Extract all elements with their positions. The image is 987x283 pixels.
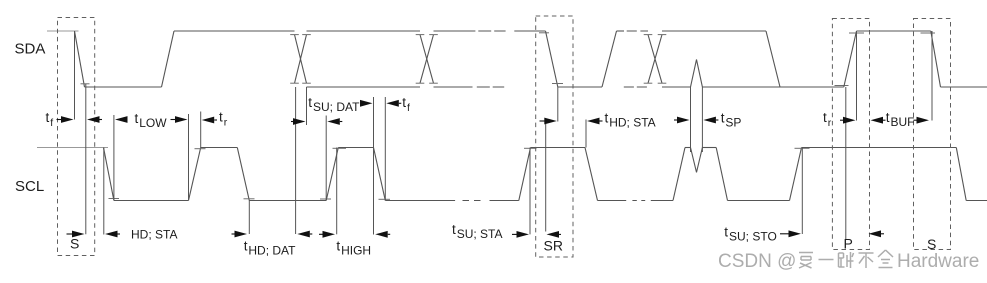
dimension tr1 arrow xyxy=(202,117,217,124)
svg-text:t: t xyxy=(823,110,827,125)
svg-text:t: t xyxy=(886,110,890,125)
svg-text:S: S xyxy=(70,236,79,252)
dimension tSU;DAT right arrow xyxy=(327,118,342,125)
svg-text:SCL: SCL xyxy=(15,178,44,195)
wire SDA rise 2 xyxy=(602,31,617,87)
dimension tBUF left arrow xyxy=(871,117,886,124)
wire SCL high segment 2 xyxy=(338,147,373,149)
label P STOP xyxy=(844,236,853,252)
wire SDA low rail after spike xyxy=(702,86,843,88)
wire SDA low rail dashes 2 xyxy=(624,86,647,88)
wire SDA rise at STOP P xyxy=(844,31,857,87)
wire SCL low 3 solid xyxy=(385,200,455,202)
dimension tSU;DAT left arrow xyxy=(291,118,306,125)
svg-text:P: P xyxy=(844,236,853,252)
label tSU;DAT xyxy=(308,95,360,114)
wire SDA low rail dashes xyxy=(477,86,504,88)
svg-text:r: r xyxy=(224,117,228,129)
tick mark SCL rise 1 top xyxy=(195,148,206,150)
extension line L21 SCL rise 3 top (tSU;STA) xyxy=(529,148,531,235)
tick mark SDA second START fall top xyxy=(921,32,936,34)
wire SDA fall 4 xyxy=(766,31,780,87)
svg-text:SP: SP xyxy=(725,116,741,130)
extension line L18 SCL fall 2 end (tHD;DAT) xyxy=(248,201,250,235)
svg-text:BUF: BUF xyxy=(891,115,915,129)
svg-text:r: r xyxy=(828,117,832,129)
extension line L10 SCL fall 3 end (tf) xyxy=(384,97,386,201)
wire SDA high rail after X3 xyxy=(662,30,766,32)
svg-text:SU; STA: SU; STA xyxy=(457,227,503,241)
node SCL high rail entry (gray) xyxy=(37,147,108,149)
svg-text:t: t xyxy=(452,222,456,237)
extension line L4 SCL fall 1 end (tLOW) xyxy=(113,115,115,201)
extension line L13 spike left edge xyxy=(690,87,692,152)
extension line L20 SCL rise 2 top (tHIGH) xyxy=(336,148,338,235)
svg-text:f: f xyxy=(407,102,410,114)
tick marks SDA crossover X2 xyxy=(416,35,438,84)
label tLOW xyxy=(135,111,168,130)
wire SCL rise 2 xyxy=(326,148,338,201)
wire SDA high rail before SR xyxy=(514,30,545,32)
dimension tLOW left arrow xyxy=(115,116,128,123)
wire SCL fall 4 xyxy=(585,148,598,201)
svg-text:f: f xyxy=(50,117,53,129)
wire SCL fall 1 xyxy=(104,148,114,201)
extension line L17 SDA second S fall start xyxy=(931,31,933,121)
wire SDA fall at second START xyxy=(931,31,941,87)
dimension tf2 left arrow xyxy=(360,100,373,107)
wire SDA rise 1 xyxy=(162,31,175,87)
wire SDA fall at repeated START SR xyxy=(546,31,558,87)
svg-text:t: t xyxy=(308,95,312,110)
spike pulse on SDA low rail xyxy=(691,60,703,88)
label tf2 xyxy=(402,95,410,114)
wire SDA crossover X2 fall xyxy=(420,35,434,84)
wire SDA crossover X3 rise xyxy=(648,35,662,84)
dimension tf2 right arrow xyxy=(386,100,401,107)
wire SDA high segment 1 xyxy=(174,30,295,32)
wire SDA low rail after X1 xyxy=(307,86,421,88)
extension line L15 SDA P rise top xyxy=(856,31,858,121)
tick mark SDA P rise bottom xyxy=(835,85,849,87)
label tHIGH xyxy=(336,239,371,258)
svg-text:t: t xyxy=(135,111,139,126)
wire SDA low segment 2 xyxy=(558,86,602,88)
label SR repeated START xyxy=(544,238,563,254)
label tr1 xyxy=(219,110,228,129)
dimension tSU;STO right arrow xyxy=(869,230,885,237)
wire SDA low segment 1 xyxy=(85,86,162,88)
svg-text:SU; DAT: SU; DAT xyxy=(313,100,360,114)
extension line L6 SCL rise 1 top (tr) xyxy=(200,112,202,148)
label S second START xyxy=(927,236,936,252)
label tSU;STO xyxy=(724,225,776,244)
tick mark SCL fall 1 bottom xyxy=(109,198,120,200)
extension line L11a SDA SR fall start xyxy=(545,124,547,232)
dimension tHIGH right arrow xyxy=(375,231,390,238)
extension line L14 spike right edge xyxy=(701,87,703,152)
wire SDA high rail solid after X2 xyxy=(434,30,476,32)
svg-text:t: t xyxy=(605,111,609,126)
dimension tBUF right arrow xyxy=(914,117,930,124)
dimension tHD;DAT left arrow xyxy=(232,231,248,238)
svg-text:t: t xyxy=(219,110,223,125)
wire SDA high rail dashes 2 xyxy=(627,30,648,32)
tick marks SDA crossover X1 xyxy=(290,35,311,84)
svg-text:S: S xyxy=(927,236,936,252)
wire SCL low 3 dashes xyxy=(463,200,481,202)
wire SDA low rail to spike xyxy=(662,86,691,88)
wire SDA crossover X1 fall xyxy=(295,35,307,84)
svg-text:CSDN @: CSDN @ xyxy=(718,251,796,272)
label tSU;STA xyxy=(452,222,502,241)
extension line L12 SCL fall 4 start xyxy=(585,120,587,148)
tick mark SCL rise 5 top xyxy=(795,147,810,149)
svg-text:Hardware: Hardware xyxy=(897,251,979,272)
svg-text:t: t xyxy=(244,239,248,254)
extension line L1 SDA START fall start xyxy=(74,31,76,120)
svg-text:t: t xyxy=(402,95,406,110)
label tf1 xyxy=(46,110,54,129)
dimension tHD;DAT right arrow xyxy=(297,231,312,238)
wire SCL fall 2 xyxy=(237,148,249,201)
notch pulse on SCL high rail xyxy=(691,148,703,173)
wire SDA high between P and S xyxy=(857,30,931,32)
dimension tSU;STA right arrow xyxy=(547,231,562,238)
wire SCL high segment 1 xyxy=(201,147,238,149)
extension line L11b SDA SR fall end xyxy=(557,87,559,122)
label tSP xyxy=(721,111,742,130)
wire SDA high rail after X1 xyxy=(307,30,421,32)
tick mark SCL rise 2 top xyxy=(333,147,347,149)
wire SCL low 4 dashes xyxy=(632,200,645,202)
wire SCL rise 5 xyxy=(790,148,802,201)
dimension tHD;STA2 left arrow xyxy=(540,118,557,125)
wire SCL fall 6 xyxy=(956,148,966,201)
wire SCL rise 1 xyxy=(189,148,201,201)
wire SDA crossover X2 rise xyxy=(420,35,434,84)
watermark CSDN xyxy=(718,250,979,272)
svg-text:t: t xyxy=(724,225,728,240)
node SDA high rail entry (gray) xyxy=(47,30,79,32)
node SR repeated START condition box xyxy=(536,16,573,257)
label tr2 xyxy=(823,110,832,129)
wire SCL high before notch xyxy=(685,147,691,149)
dimension tSU;STA left arrow xyxy=(512,231,529,238)
svg-text:SR: SR xyxy=(544,238,563,254)
tick marks SDA crossover X3 xyxy=(644,35,667,84)
extension line L8 SCL rise 2 start (tSU;DAT) xyxy=(325,116,327,201)
tick mark SDA SR fall top xyxy=(539,32,549,34)
wire SCL rise 4 xyxy=(673,148,685,201)
extension line L9 SCL fall 3 start xyxy=(373,97,375,235)
label tHD;DAT xyxy=(244,239,296,258)
wire SCL low segment 1 xyxy=(114,200,189,202)
wire SCL high segment 3 xyxy=(531,147,586,149)
wire SCL high after notch xyxy=(702,147,716,149)
dimension tSU;STO left arrow xyxy=(780,230,801,237)
dimension tSP left arrow xyxy=(674,117,690,124)
node P STOP condition box xyxy=(832,19,869,250)
svg-text:SDA: SDA xyxy=(15,41,46,58)
wire SCL fall 5 xyxy=(716,148,727,201)
svg-text:t: t xyxy=(336,239,340,254)
svg-text:HD; DAT: HD; DAT xyxy=(248,244,296,258)
tick mark SDA START fall bottom xyxy=(81,83,90,85)
wire SDA low tail xyxy=(941,86,987,88)
wire SCL low 3 before rise xyxy=(490,200,519,202)
wire SCL high segment 6 xyxy=(802,147,957,149)
label SDA signal xyxy=(15,41,46,58)
wire SDA crossover X1 rise xyxy=(295,35,307,84)
dimension tHIGH left arrow xyxy=(319,231,335,238)
wire SCL low segment 5 xyxy=(728,200,790,202)
node S second START condition box xyxy=(914,19,951,250)
label tHD;STA2 xyxy=(605,111,656,130)
node S START condition box xyxy=(58,18,95,256)
svg-text:SU; STO: SU; STO xyxy=(729,230,777,244)
extension line L22 SCL rise 5 top (tSU;STO) xyxy=(801,148,803,235)
tick mark SDA P rise top xyxy=(849,32,864,34)
dimension S position arrow xyxy=(67,231,85,238)
tick mark SCL rise 3 top xyxy=(524,147,537,149)
svg-text:HD; STA: HD; STA xyxy=(609,116,655,130)
wire SDA fall at START S xyxy=(75,31,85,87)
label tBUF xyxy=(886,110,915,129)
wire SDA high rail dashes xyxy=(478,30,505,32)
tick mark SCL fall 3 bottom xyxy=(379,198,391,200)
label SCL signal xyxy=(15,178,44,195)
svg-text:t: t xyxy=(46,110,50,125)
label S first START xyxy=(70,236,79,252)
dimension tLOW right arrow xyxy=(171,116,188,123)
svg-text:HIGH: HIGH xyxy=(341,244,371,258)
dimension tf1 left arrow xyxy=(57,116,74,123)
dimension tr2 arrow xyxy=(840,117,856,124)
extension line L16 SDA P rise start xyxy=(845,87,847,240)
extension line L2 SDA START fall end xyxy=(85,84,87,234)
dimension tf1 right arrow xyxy=(87,116,102,123)
svg-text:HD; STA: HD; STA xyxy=(131,228,177,242)
wire SCL low segment 2 xyxy=(249,200,326,202)
tick mark SDA SR fall bottom xyxy=(552,83,563,85)
tick mark SCL fall 2 bottom xyxy=(244,198,255,200)
wire SDA low rail solid after X2 xyxy=(434,86,473,88)
extension line L3 SCL fall 1 start xyxy=(103,148,105,235)
wire SDA crossover X3 fall xyxy=(648,35,662,84)
dimension tHD;STA1 arrow xyxy=(105,231,120,238)
extension line L19 SDA X1 change start xyxy=(295,87,297,234)
extension line L5 SCL rise 1 start (tLOW) xyxy=(188,114,190,201)
wire SCL low 4 solid xyxy=(598,200,627,202)
tick mark SCL rise 2 bottom xyxy=(320,198,331,200)
svg-text:t: t xyxy=(721,111,725,126)
wire SCL rise 3 xyxy=(519,148,531,201)
svg-text:LOW: LOW xyxy=(139,116,167,130)
wire SDA high short after rise 2 xyxy=(617,30,625,32)
extension line L7 SDA X1 data valid xyxy=(306,87,308,125)
label tHD;STA1 xyxy=(131,228,177,242)
wire SCL low tail xyxy=(966,200,987,202)
wire SCL low 4 before rise xyxy=(651,200,673,202)
dimension tSP right arrow xyxy=(703,117,718,124)
wire SCL fall 3 xyxy=(374,148,386,201)
dimension tHD;STA2 right arrow xyxy=(587,118,603,125)
